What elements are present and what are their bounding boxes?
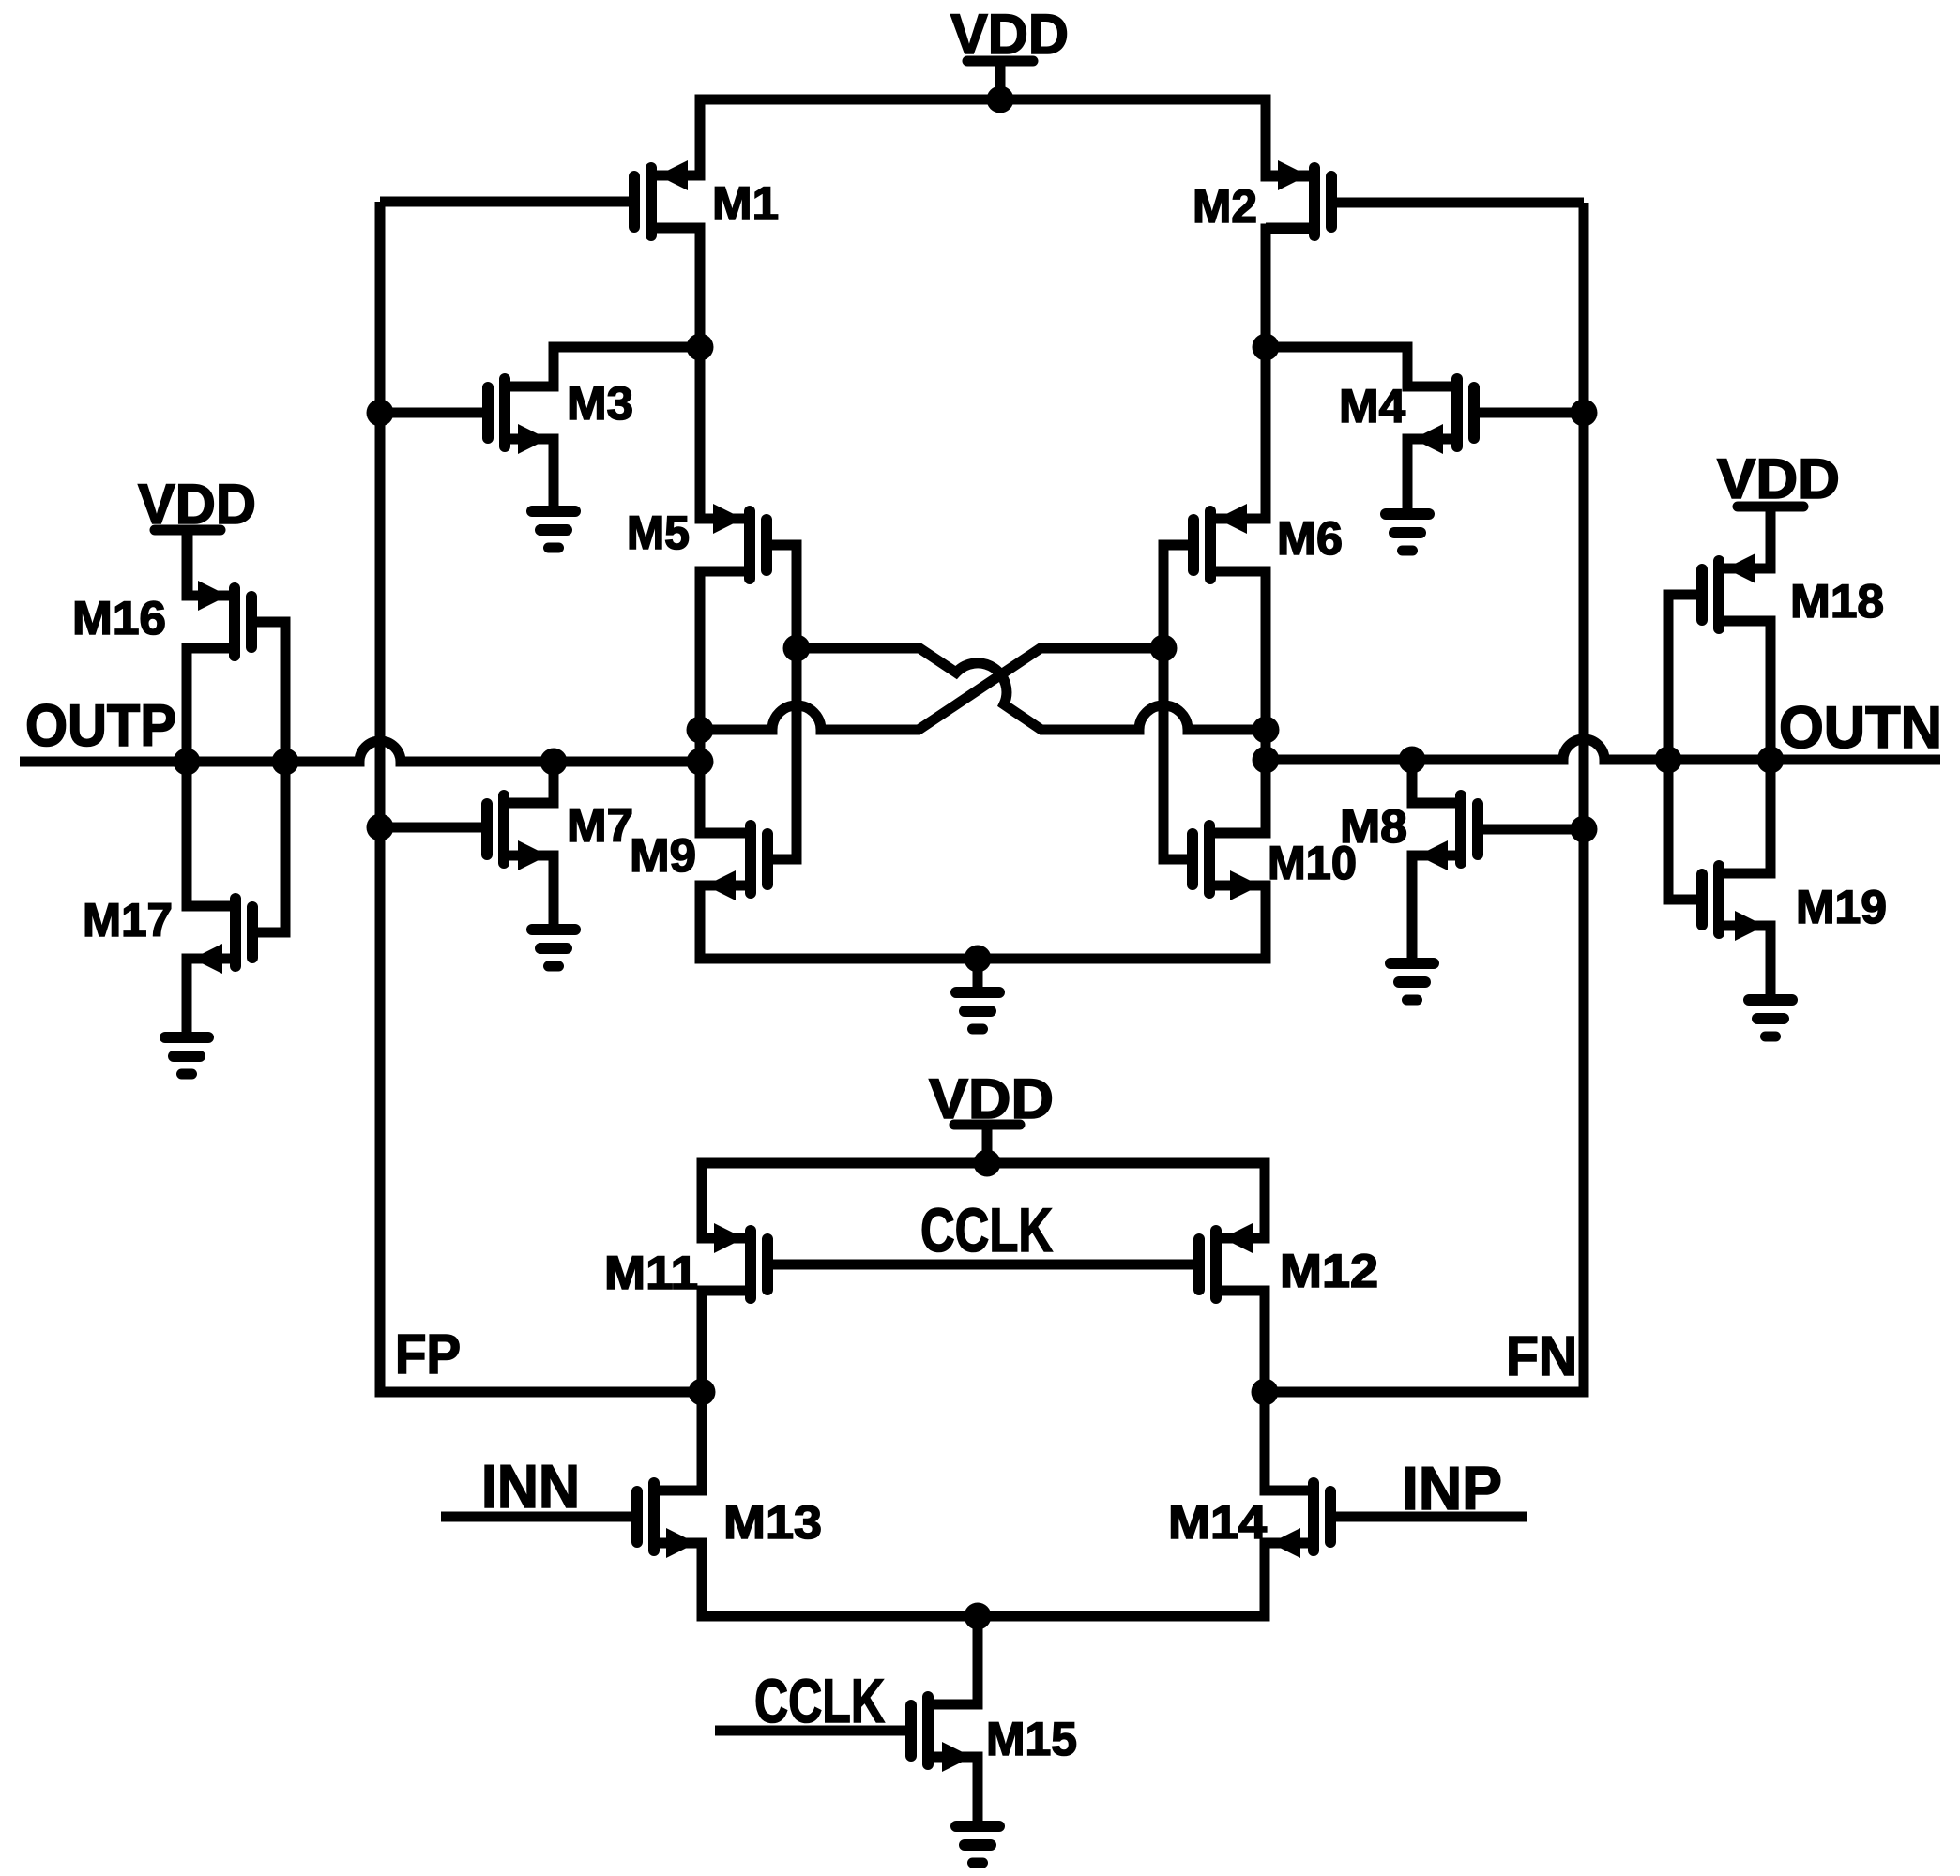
- svg-text:FP: FP: [395, 1324, 461, 1385]
- svg-text:CCLK: CCLK: [754, 1666, 885, 1735]
- svg-text:M15: M15: [986, 1713, 1077, 1765]
- wire M4 gate to FN vertical: [1474, 408, 1584, 418]
- svg-text:M2: M2: [1193, 180, 1257, 233]
- wire M2 drain down to M6 source: [1210, 229, 1314, 519]
- wire M9 source to ground rail to M10 source: [700, 885, 1266, 959]
- transistor M7 (NMOS): [487, 795, 554, 870]
- svg-text:M19: M19: [1796, 881, 1887, 933]
- svg-text:M4: M4: [1339, 380, 1405, 432]
- svg-text:M12: M12: [1280, 1245, 1378, 1297]
- wire M17 source to ground: [187, 959, 236, 1032]
- wire M1 drain down to M5 source: [651, 228, 750, 519]
- wire FN vertical from M2 gate down to FN row: [1265, 203, 1584, 1392]
- transistor M14 (NMOS): [1265, 1483, 1330, 1558]
- wire M7 gate to FP vertical: [380, 823, 489, 833]
- node M1 drain / M3 drain junction: [687, 334, 714, 361]
- wire M3 source to ground: [505, 439, 554, 511]
- ground (M19 source): [1749, 926, 1792, 1036]
- node VDD top rail: [987, 86, 1014, 113]
- wire M7 drain up to OUTP: [504, 762, 554, 803]
- node OUTN / M18-M19 drains: [1757, 747, 1785, 774]
- svg-text:M10: M10: [1268, 837, 1357, 889]
- transistor M18 (PMOS): [1702, 553, 1770, 628]
- wire M15 source to ground: [928, 1757, 978, 1821]
- node OUTN / M18-M19 gates: [1655, 747, 1682, 774]
- wire INN input stub: [441, 1512, 638, 1522]
- wire M16 source to VDD: [187, 530, 235, 596]
- wire tail rail M13/M14 sources: [654, 1543, 1314, 1616]
- transistor M11 (PMOS): [702, 1223, 767, 1298]
- wire M15 drain up to tail node: [928, 1616, 978, 1704]
- power symbol VDD (left): [138, 473, 256, 596]
- wire CCLK input stub to M15 gate: [715, 1726, 912, 1736]
- node M3 gate on FP vertical: [367, 400, 394, 427]
- wire INP input stub: [1329, 1512, 1527, 1522]
- transistor M9 (NMOS): [700, 825, 767, 900]
- node OUTP at left column: [687, 749, 714, 776]
- svg-text:FN: FN: [1506, 1325, 1577, 1387]
- node FP junction: [689, 1379, 716, 1406]
- wire cross-couple A (left gates to right drain column, hops at crossing and over right gate wire): [797, 648, 1266, 730]
- svg-text:M9: M9: [630, 829, 696, 882]
- svg-text:M11: M11: [604, 1247, 698, 1299]
- svg-text:M5: M5: [627, 507, 690, 559]
- wire M2 gate to FN vertical: [1330, 198, 1584, 208]
- wire M4 source to ground: [1407, 439, 1457, 512]
- node OUTN / M8 drain: [1399, 747, 1426, 774]
- svg-text:OUTP: OUTP: [25, 693, 176, 759]
- node M7 gate on FP vertical: [367, 814, 394, 841]
- wire M8 gate to FN vertical: [1476, 825, 1584, 835]
- wire M16/M17 gates to OUTP: [251, 622, 285, 932]
- transistor M16 (PMOS): [187, 581, 251, 656]
- wire bottom VDD rail with drops to M11/M12 sources: [702, 1163, 1265, 1238]
- svg-text:INN: INN: [481, 1452, 580, 1520]
- node tail rail / M15 drain: [965, 1603, 992, 1630]
- wire M5 drain / left output column down to M9 drain: [700, 571, 751, 833]
- node ground rail center: [965, 946, 992, 973]
- svg-text:M1: M1: [712, 177, 779, 230]
- transistor M2 (PMOS): [1266, 160, 1331, 235]
- ground (M17 source): [165, 959, 208, 1074]
- node M4 gate on FN vertical: [1571, 400, 1598, 427]
- ground (M8 source): [1390, 855, 1434, 1000]
- svg-text:M13: M13: [723, 1496, 822, 1549]
- wire M3 drain to node: [505, 347, 700, 386]
- wire FP vertical from M1 gate down to FP row: [380, 202, 702, 1392]
- ground (latch tail): [956, 959, 999, 1029]
- svg-text:CCLK: CCLK: [920, 1195, 1053, 1264]
- svg-text:VDD: VDD: [1717, 447, 1840, 510]
- power symbol VDD (right): [1717, 447, 1840, 568]
- wire M19 source to ground: [1719, 926, 1770, 994]
- wire M1 gate to FP vertical: [380, 197, 634, 207]
- node OUTP / M16-M17 gates: [272, 749, 299, 776]
- svg-text:M18: M18: [1790, 575, 1884, 628]
- wire M12 drain to FN node: [1216, 1291, 1265, 1392]
- ground (M3 source): [532, 439, 575, 548]
- ground (M15 source): [956, 1757, 999, 1863]
- svg-text:M14: M14: [1168, 1496, 1267, 1549]
- wire M16/M17 drains to OUTP: [187, 648, 236, 906]
- ground (M4 source): [1386, 439, 1429, 551]
- node cross wire B at left column: [687, 717, 714, 744]
- wire M11 drain to FP node: [702, 1291, 751, 1392]
- wire M18/M19 gates to OUTN: [1668, 595, 1703, 900]
- wire M18/M19 drains to OUTN: [1719, 621, 1770, 873]
- node OUTP / M16-M17 drains: [174, 749, 201, 776]
- wire CCLK gate line M11-M12: [767, 1260, 1200, 1270]
- wire M4 drain to node: [1266, 347, 1457, 386]
- node FN junction: [1252, 1379, 1279, 1406]
- wire M6 gate and M10 gate tie vertical: [1163, 545, 1194, 859]
- transistor M10 (NMOS): [1193, 825, 1266, 900]
- ground (M7 source): [532, 855, 575, 966]
- svg-text:OUTN: OUTN: [1779, 695, 1942, 761]
- wire OUTN row (hops over FN vertical): [1266, 739, 1940, 760]
- transistor M8 (NMOS): [1412, 795, 1478, 870]
- wire VDD top rail with drops to M1/M2 sources: [651, 99, 1314, 176]
- svg-text:M7: M7: [567, 799, 633, 852]
- svg-text:INP: INP: [1402, 1454, 1502, 1522]
- transistor M5 (PMOS): [700, 504, 767, 579]
- transistor M15 (NMOS): [911, 1697, 978, 1772]
- node OUTN at right column: [1253, 747, 1280, 774]
- svg-text:M16: M16: [72, 592, 166, 644]
- wire M13 drain to FP node: [654, 1392, 702, 1490]
- power symbol VDD (top): [950, 3, 1069, 99]
- transistor M4 (NMOS): [1407, 379, 1474, 454]
- node M8 gate on FN vertical: [1571, 816, 1598, 843]
- node M5/M9 gate (cross-couple tap): [783, 635, 811, 662]
- transistor M13 (NMOS): [637, 1483, 702, 1558]
- node M6/M10 gate (cross-couple tap): [1150, 635, 1178, 662]
- wire OUTP row (hops over FP vertical): [20, 741, 700, 762]
- svg-text:M3: M3: [567, 377, 633, 430]
- transistor M12 (PMOS): [1199, 1223, 1265, 1298]
- wire M8 source to ground: [1412, 855, 1461, 963]
- transistor M3 (NMOS): [488, 379, 554, 454]
- wire M6 drain / right output column down to M10 drain: [1209, 571, 1266, 833]
- wire cross-couple B (right gates to left drain column, hops over left gate wire): [700, 648, 1163, 730]
- svg-text:M17: M17: [83, 894, 173, 946]
- transistor M19 (NMOS): [1702, 866, 1770, 941]
- svg-text:M6: M6: [1277, 512, 1343, 565]
- transistor M1 (PMOS): [634, 160, 700, 235]
- transistor M6 (PMOS): [1193, 504, 1266, 579]
- power symbol VDD (bottom): [929, 1067, 1054, 1163]
- wire M8 drain up to OUTN: [1412, 760, 1461, 803]
- wire M5 gate and M9 gate tie vertical: [766, 545, 797, 859]
- node M2 drain / M4 drain junction: [1253, 334, 1280, 361]
- wire M18 source to VDD: [1719, 507, 1770, 568]
- node cross wire A at right column: [1253, 717, 1280, 744]
- wire M7 source to ground: [504, 855, 554, 930]
- transistor M17 (NMOS): [187, 899, 252, 974]
- wire M3 gate to FP vertical: [380, 408, 489, 418]
- wire M14 drain to FN node: [1265, 1392, 1314, 1490]
- node bottom VDD rail: [974, 1150, 1001, 1177]
- node OUTP / M7 drain: [540, 749, 568, 776]
